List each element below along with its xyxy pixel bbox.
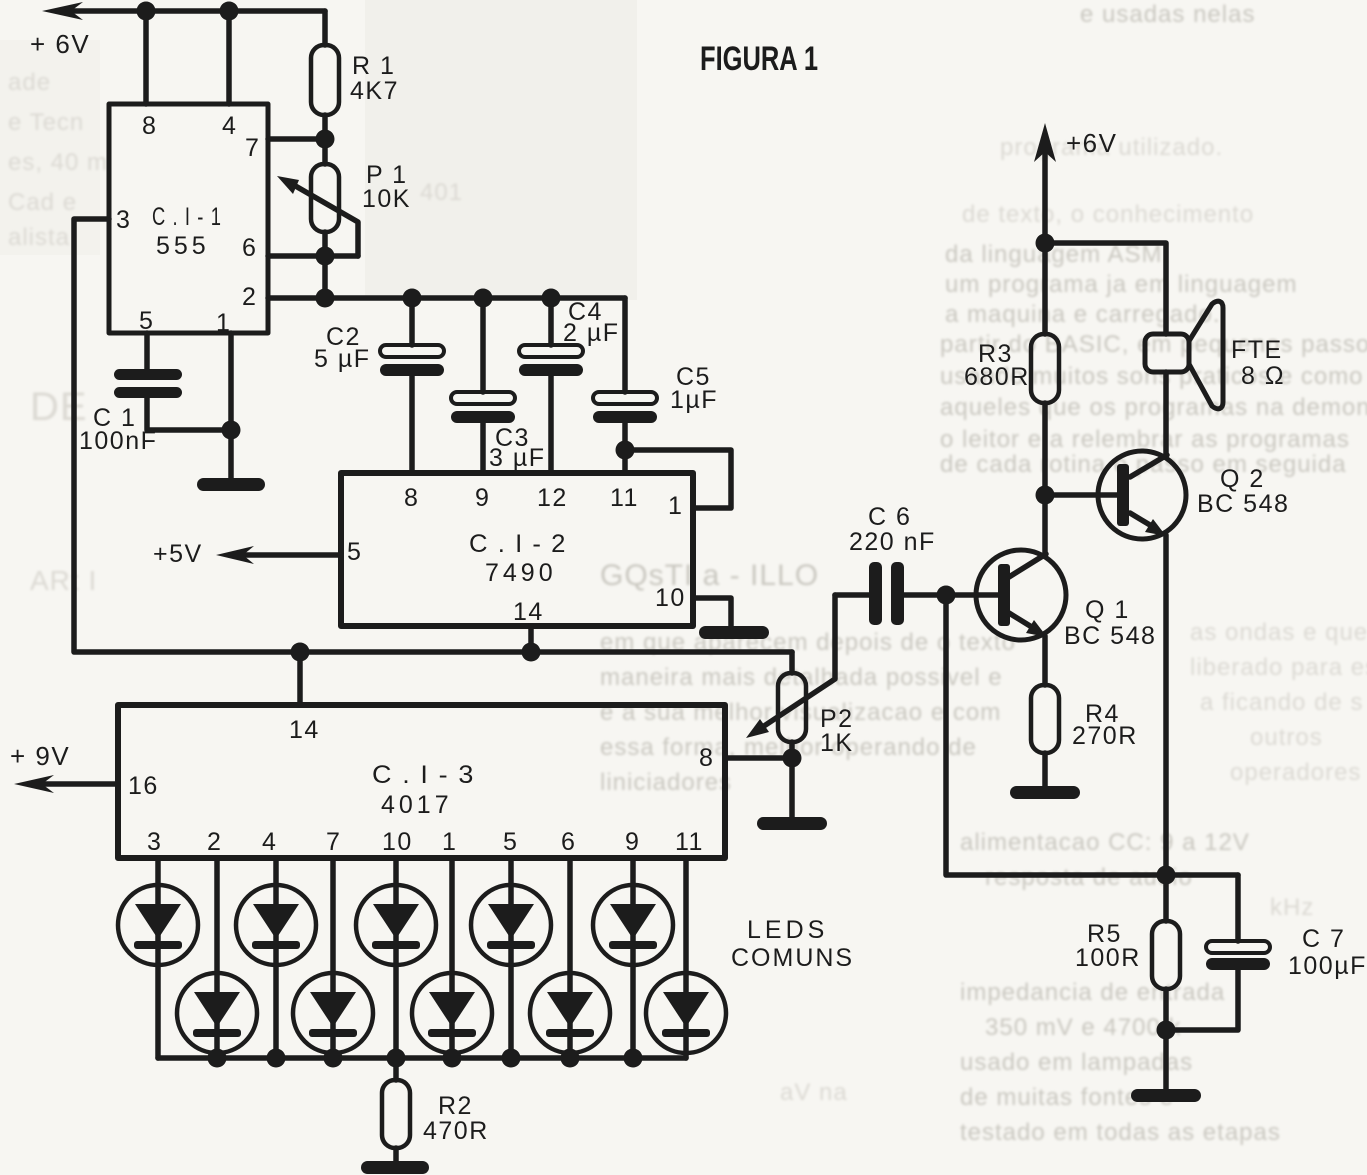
- wire C6 right lead to Q1 base: [903, 592, 998, 598]
- capacitor C7 leads: [1235, 875, 1241, 941]
- wire Q1 emitter down to R4: [1042, 636, 1048, 685]
- svg-text:5: 5: [139, 307, 154, 335]
- svg-text:220 nF: 220 nF: [849, 528, 936, 556]
- junction node pin2-C4: [542, 289, 561, 308]
- arrow +5V: [216, 546, 254, 564]
- LED D2 triangle and bar: [194, 992, 240, 1027]
- LED D10 triangle and bar: [663, 992, 709, 1027]
- op 4017 IC C.I-3 box: [118, 705, 725, 858]
- wire C4 bottom to 7490 pin12: [548, 376, 554, 473]
- capacitor C4 plate bottom: [519, 364, 583, 376]
- svg-text:alista: alista: [8, 224, 70, 251]
- junction node rail-pin8: [137, 2, 156, 21]
- svg-text:R 1: R 1: [352, 52, 395, 80]
- svg-text:5: 5: [347, 538, 362, 566]
- wire 555 pin5 to C1: [144, 333, 150, 369]
- arrow P1 wiper: [277, 176, 299, 194]
- LED D5 triangle and bar: [373, 904, 419, 939]
- svg-text:1: 1: [216, 309, 231, 337]
- wire 555 pin2 row: [268, 295, 625, 301]
- ground below R4: [1010, 786, 1080, 799]
- LED D8 triangle and bar: [547, 992, 593, 1027]
- wire rail corner to R1: [322, 11, 328, 45]
- wire LED column pin11: [683, 858, 689, 1058]
- capacitor C2 plate top outline: [380, 345, 444, 357]
- svg-text:1K: 1K: [820, 729, 854, 757]
- svg-text:10: 10: [655, 584, 686, 612]
- svg-text:liniciadores: liniciadores: [600, 769, 732, 796]
- junction node rail-D5: [387, 1049, 406, 1068]
- LED D1 circle: [118, 885, 198, 965]
- wire 4017 pin8: [725, 755, 792, 761]
- svg-text:es, 40 m: es, 40 m: [8, 149, 108, 176]
- wire 7490 pin1 hook: [625, 450, 731, 508]
- LED D8 circle: [530, 973, 610, 1053]
- wire LED column pin7: [330, 858, 336, 1058]
- svg-text:operadores: operadores: [1230, 759, 1361, 786]
- svg-text:aqueles que os programas na de: aqueles que os programas na demonstrar: [940, 394, 1367, 421]
- LED D10 circle: [646, 973, 726, 1053]
- svg-text:10: 10: [382, 828, 413, 856]
- wire Q2 emitter down to R5: [1163, 535, 1169, 921]
- junction node rail-D4: [324, 1049, 343, 1068]
- LED D1 triangle and bar: [135, 904, 181, 939]
- junction node rail-D2: [208, 1049, 227, 1068]
- wire C5 bottom to 7490 pin11: [622, 423, 628, 473]
- svg-text:7: 7: [326, 828, 341, 856]
- wire P2 wiper to C6 node: [764, 595, 835, 726]
- capacitor C7 plate bottom: [1206, 958, 1270, 970]
- svg-text:3 µF: 3 µF: [489, 444, 546, 472]
- svg-text:BC 548: BC 548: [1064, 622, 1156, 650]
- wire 7490 pin10 to ground: [693, 598, 731, 626]
- LED D2 circle: [177, 973, 257, 1053]
- wire +6V top rail: [70, 8, 325, 14]
- svg-text:usado em lampadas: usado em lampadas: [960, 1049, 1193, 1076]
- svg-text:4: 4: [262, 828, 277, 856]
- svg-text:R2: R2: [438, 1092, 473, 1120]
- LED D4 circle: [293, 973, 373, 1053]
- wire P1 bottom to pin6 node: [322, 232, 328, 298]
- svg-text:12: 12: [537, 484, 568, 512]
- svg-text:4K7: 4K7: [350, 77, 399, 105]
- svg-text:Q 2: Q 2: [1220, 465, 1265, 493]
- capacitor C3 plate top outline: [451, 392, 515, 404]
- svg-text:5: 5: [503, 828, 518, 856]
- capacitor C1 plate top: [114, 369, 182, 380]
- wire 555 pin1 to ground: [228, 333, 234, 478]
- wire +6V node to speaker: [1045, 243, 1166, 334]
- wire C4 top: [548, 298, 554, 345]
- wire Q2 base from R3 node: [1045, 492, 1117, 498]
- wire 555 pin7: [268, 136, 325, 142]
- svg-text:e usadas nelas: e usadas nelas: [1080, 1, 1255, 28]
- capacitor C5 plate bottom: [593, 411, 657, 423]
- LED D5 circle: [356, 885, 436, 965]
- wire 4017 pin14 from bus: [297, 652, 303, 705]
- wire C5 top corner: [622, 298, 628, 392]
- svg-text:2 µF: 2 µF: [563, 319, 620, 347]
- arrow Q2 emitter: [1145, 519, 1166, 536]
- svg-text:um programa ja em linguagem: um programa ja em linguagem: [945, 271, 1298, 298]
- junction node rail-D7: [502, 1049, 521, 1068]
- transistor Q1 circle: [976, 550, 1066, 640]
- wire R4 to ground: [1042, 753, 1048, 786]
- svg-text:6: 6: [242, 234, 257, 262]
- ground below R2: [361, 1161, 429, 1174]
- resistor R2: [382, 1080, 410, 1148]
- svg-text:4: 4: [222, 112, 237, 140]
- LED D3 circle: [236, 885, 316, 965]
- capacitor C6 plate right: [891, 562, 904, 625]
- potentiometer P1: [311, 164, 339, 232]
- wire P1 wiper return: [292, 184, 358, 256]
- capacitor C3 plate bottom: [451, 411, 515, 423]
- svg-text:4017: 4017: [381, 791, 453, 819]
- svg-text:+5V: +5V: [153, 540, 203, 568]
- svg-text:testado em todas as etapas: testado em todas as etapas: [960, 1119, 1281, 1146]
- wire bus corner to P2: [789, 652, 795, 673]
- svg-text:14: 14: [289, 716, 320, 744]
- junction node rail-D9: [624, 1049, 643, 1068]
- svg-text:Q 1: Q 1: [1085, 596, 1130, 624]
- svg-text:C 7: C 7: [1302, 925, 1345, 953]
- LED D3 triangle and bar: [253, 904, 299, 939]
- ground below 555 pin1: [197, 478, 265, 491]
- svg-text:6: 6: [561, 828, 576, 856]
- svg-text:5 µF: 5 µF: [314, 345, 371, 373]
- junction node bus-7490pin14: [522, 643, 541, 662]
- wire speaker to Q2 collector: [1163, 372, 1169, 457]
- wire LED column pin10: [393, 858, 399, 1058]
- svg-text:8: 8: [142, 112, 157, 140]
- svg-text:as ondas e que leve: as ondas e que leve: [1190, 619, 1367, 646]
- capacitor C7 plate top outline: [1206, 941, 1270, 953]
- svg-text:a maquina e carregado.: a maquina e carregado.: [945, 301, 1221, 328]
- ground below 7490 pin10: [699, 626, 769, 639]
- wire 555 pin4 drop: [226, 11, 232, 104]
- svg-text:+ 6V: + 6V: [30, 29, 90, 59]
- svg-text:e Tecn: e Tecn: [8, 109, 84, 136]
- svg-text:aV na: aV na: [780, 1079, 848, 1106]
- junction node rail-D8: [561, 1049, 580, 1068]
- svg-text:alimentacao CC: 9 a 12V: alimentacao CC: 9 a 12V: [960, 829, 1250, 856]
- junction node rail-pin4: [220, 2, 239, 21]
- op 7490 IC C.I-2 box: [341, 473, 693, 626]
- svg-text:FTE: FTE: [1231, 336, 1283, 364]
- svg-text:100nF: 100nF: [79, 427, 157, 455]
- svg-text:401: 401: [420, 179, 463, 206]
- junction node rail-D3: [267, 1049, 286, 1068]
- ground below P2: [757, 817, 827, 830]
- svg-text:680R: 680R: [964, 363, 1030, 391]
- speaker FTE frame: [1145, 334, 1189, 372]
- resistor R5: [1152, 921, 1180, 989]
- svg-text:100R: 100R: [1075, 944, 1141, 972]
- ground below R5: [1131, 1089, 1201, 1102]
- svg-text:kHz: kHz: [1270, 894, 1314, 921]
- svg-text:ade: ade: [8, 69, 51, 96]
- junction node bus-4017pin14: [291, 643, 310, 662]
- LED D6 triangle and bar: [429, 992, 475, 1027]
- svg-text:8: 8: [404, 484, 419, 512]
- wire 555 pin8 drop: [143, 11, 149, 104]
- wire C3 bottom to 7490 pin9: [480, 423, 486, 473]
- svg-text:a ficando de s: a ficando de s: [1200, 689, 1363, 716]
- svg-text:GQsTI a - ILLO: GQsTI a - ILLO: [600, 559, 819, 592]
- junction node R5-C7: [1157, 1021, 1176, 1040]
- wire R5 to ground: [1163, 989, 1169, 1089]
- junction node C6-Q1: [937, 586, 956, 605]
- svg-text:1: 1: [442, 828, 457, 856]
- svg-text:3: 3: [116, 206, 131, 234]
- junction node P2-pin8: [783, 749, 802, 768]
- wire Q2 collector diagonal: [1130, 455, 1167, 477]
- arrow Q1 emitter: [1026, 620, 1047, 637]
- wire LED column pin4: [273, 858, 279, 1058]
- wire LED column pin2: [214, 858, 220, 1058]
- LED D7 triangle and bar: [488, 904, 534, 939]
- wire C2 bottom to 7490 pin8: [409, 376, 415, 473]
- svg-text:de cada rotina o passo em segu: de cada rotina o passo em seguida: [940, 451, 1347, 478]
- svg-text:BC 548: BC 548: [1197, 490, 1289, 518]
- capacitor C5 plate top outline: [593, 392, 657, 404]
- svg-text:impedancia de entrada: impedancia de entrada: [960, 979, 1225, 1006]
- LED D7 circle: [471, 885, 551, 965]
- junction node pin2-C2: [403, 289, 422, 308]
- Q2 base bar: [1117, 464, 1129, 526]
- LED D9 circle: [593, 885, 673, 965]
- wire C7 bottom to R5 node: [1166, 970, 1238, 1030]
- svg-text:11: 11: [675, 828, 704, 856]
- svg-text:FIGURA 1: FIGURA 1: [700, 40, 818, 78]
- svg-text:2: 2: [242, 283, 257, 311]
- capacitor C2 plate bottom: [380, 364, 444, 376]
- junction node rail-D6: [443, 1049, 462, 1068]
- svg-text:Cad e: Cad e: [8, 189, 77, 216]
- junction node pin2-P1: [316, 289, 335, 308]
- op 555 IC C.I-1 box: [109, 104, 268, 333]
- junction node C1-pin1: [222, 421, 241, 440]
- svg-text:470R: 470R: [423, 1117, 489, 1145]
- svg-text:+ 9V: + 9V: [10, 741, 70, 771]
- wire Q1 collector up: [1042, 403, 1048, 556]
- svg-text:8: 8: [699, 744, 714, 772]
- potentiometer P2: [778, 673, 806, 742]
- wire LED column pin1: [449, 858, 455, 1058]
- wire 555 pin6: [268, 253, 358, 259]
- junction node pin2-C3: [474, 289, 493, 308]
- svg-text:8 Ω: 8 Ω: [1241, 362, 1285, 390]
- svg-text:100µF: 100µF: [1288, 952, 1367, 980]
- transistor Q2 circle: [1098, 451, 1186, 539]
- Q1 base bar: [998, 564, 1010, 626]
- svg-text:C . I - 1: C . I - 1: [152, 203, 222, 231]
- arrow P2 wiper: [746, 719, 769, 738]
- svg-text:16: 16: [128, 772, 159, 800]
- wire C2 top: [409, 298, 415, 345]
- svg-text:+6V: +6V: [1066, 128, 1118, 158]
- wire rail to R2: [393, 1058, 399, 1080]
- svg-text:C 6: C 6: [868, 503, 911, 531]
- speaker FTE horn: [1189, 301, 1223, 409]
- junction node R3-Q2base: [1036, 486, 1055, 505]
- arrow +6V left rail: [42, 2, 83, 20]
- wire +5V from 7490 pin5: [242, 552, 341, 558]
- resistor R1: [311, 45, 339, 115]
- svg-text:liberado para este: liberado para este: [1190, 654, 1367, 681]
- wire LED column pin9: [630, 858, 636, 1058]
- svg-text:3: 3: [147, 828, 162, 856]
- svg-text:270R: 270R: [1072, 722, 1138, 750]
- wire R2 to ground: [393, 1148, 399, 1161]
- wire LED column pin6: [567, 858, 573, 1058]
- junction node pin7-R1: [316, 130, 335, 149]
- arrow +6V up (right): [1034, 123, 1056, 162]
- svg-text:1: 1: [668, 492, 683, 520]
- svg-text:555: 555: [156, 232, 210, 260]
- capacitor C6 plate left: [869, 562, 882, 625]
- wire LED common rail: [158, 1055, 686, 1061]
- wire LED column pin3: [155, 858, 161, 1058]
- wire C1 bottom to pin1: [147, 397, 231, 430]
- svg-text:11: 11: [610, 484, 639, 512]
- wire C6 node down to C7 row: [946, 595, 1238, 875]
- svg-text:outros: outros: [1250, 724, 1323, 751]
- wire 555 pin3 down-left bus: [74, 219, 792, 652]
- capacitor C1 plate bottom: [114, 387, 182, 398]
- svg-text:350 mV e 4700 k: 350 mV e 4700 k: [985, 1014, 1181, 1041]
- svg-text:1µF: 1µF: [670, 386, 718, 414]
- wire Q2 emitter diagonal: [1130, 513, 1155, 528]
- junction node pin6-P1: [316, 247, 335, 266]
- svg-text:ARt I: ARt I: [30, 565, 97, 596]
- svg-text:9: 9: [475, 484, 490, 512]
- arrow +9V: [14, 775, 54, 793]
- svg-text:C . I - 2: C . I - 2: [469, 530, 567, 558]
- svg-text:2: 2: [207, 828, 222, 856]
- wire P2 bottom to ground: [789, 742, 795, 817]
- wire R1 bottom to pin7 node: [322, 115, 328, 164]
- wire C3 top: [480, 298, 486, 392]
- svg-text:7: 7: [245, 134, 260, 162]
- svg-text:14: 14: [513, 598, 544, 626]
- svg-text:LEDS: LEDS: [747, 916, 828, 944]
- wire Q1 collector diagonal: [1009, 554, 1046, 577]
- wire Q1 emitter diagonal: [1009, 613, 1035, 629]
- wire +9V from 4017 pin16: [40, 781, 118, 787]
- svg-text:COMUNS: COMUNS: [731, 944, 854, 972]
- wire LED column pin5: [508, 858, 514, 1058]
- LED D6 circle: [412, 973, 492, 1053]
- svg-text:7490: 7490: [485, 559, 557, 587]
- LED D9 triangle and bar: [610, 904, 656, 939]
- resistor R4: [1031, 685, 1059, 753]
- wire 7490 pin14 to bus: [528, 626, 534, 652]
- svg-text:de texto, o conhecimento: de texto, o conhecimento: [962, 201, 1254, 228]
- junction node +6V-R3: [1036, 234, 1055, 253]
- wire C6 left lead: [835, 592, 869, 598]
- LED D4 triangle and bar: [310, 992, 356, 1027]
- svg-text:DE: DE: [30, 385, 88, 429]
- svg-text:9: 9: [625, 828, 640, 856]
- junction node C5-pin1: [616, 441, 635, 460]
- svg-text:C . I - 3: C . I - 3: [372, 761, 475, 789]
- wire +6V arrow stem right: [1042, 152, 1048, 334]
- resistor R3: [1031, 334, 1059, 403]
- capacitor C4 plate top outline: [519, 345, 583, 357]
- junction node Q2e-R5: [1157, 866, 1176, 885]
- svg-text:10K: 10K: [362, 185, 411, 213]
